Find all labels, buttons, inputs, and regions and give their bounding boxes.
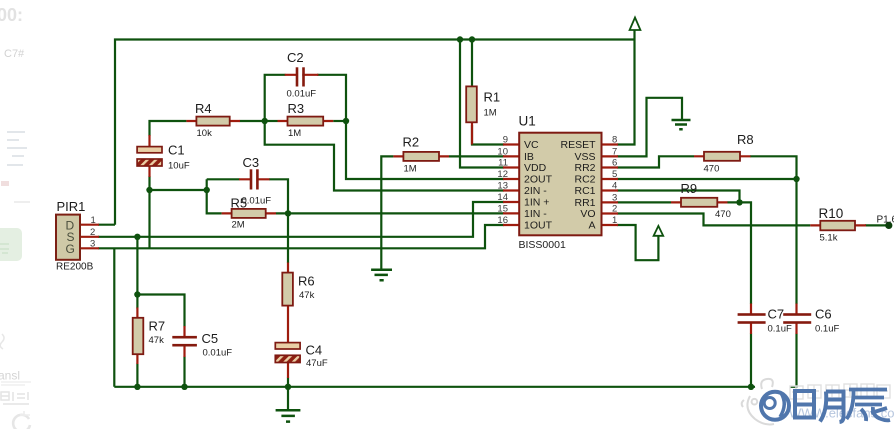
svg-text:470: 470 xyxy=(715,209,731,220)
wire C3 left vertical xyxy=(207,179,222,213)
svg-text:A: A xyxy=(588,220,595,232)
wire pin4 RC1 down to R9 right junction xyxy=(617,191,740,203)
svg-text:R10: R10 xyxy=(819,206,844,221)
R10 stubs xyxy=(810,224,866,226)
wire C1 bottom vertical down to 1OUT line xyxy=(148,176,150,248)
wire C2 loop left xyxy=(265,75,286,121)
wire C3 loop right part + down to R5 right junction xyxy=(269,179,288,213)
wire R9 right junction to C7 vertical xyxy=(727,202,751,304)
svg-text:BISS0001: BISS0001 xyxy=(519,239,566,251)
svg-text:R7: R7 xyxy=(149,318,166,333)
svg-text:R8: R8 xyxy=(737,132,754,147)
power arrow top (VDD) xyxy=(630,18,641,31)
node PIR pin2 / R7 branch xyxy=(134,234,140,240)
svg-text:1: 1 xyxy=(612,215,617,226)
R3 stubs xyxy=(278,120,334,122)
svg-text:R2: R2 xyxy=(403,134,420,149)
resistor R5 xyxy=(232,209,266,218)
svg-text:2IN -: 2IN - xyxy=(524,185,547,197)
svg-text:C7: C7 xyxy=(768,307,785,322)
resistor R10 xyxy=(820,221,855,231)
C4 stubs xyxy=(287,362,289,378)
R8 stubs xyxy=(694,155,751,157)
svg-text:1IN +: 1IN + xyxy=(524,197,549,209)
svg-text:G: G xyxy=(66,242,75,256)
svg-text:0.1uF: 0.1uF xyxy=(815,324,839,335)
svg-text:C2: C2 xyxy=(287,50,304,65)
svg-text:C1: C1 xyxy=(168,143,185,158)
svg-text:470: 470 xyxy=(704,163,720,174)
wire C6 vertical down xyxy=(795,179,797,304)
svg-text:R9: R9 xyxy=(681,181,698,196)
svg-text:14: 14 xyxy=(497,192,508,203)
wire C5 bottom to rail xyxy=(183,357,185,387)
wire junction A to R3 left xyxy=(265,120,278,122)
R9 stubs xyxy=(671,201,728,203)
wire C7 bottom to rail xyxy=(750,334,752,387)
faint left-edge screen artifacts xyxy=(0,5,31,429)
resistor R7 xyxy=(133,318,144,354)
svg-text:VO: VO xyxy=(580,208,595,220)
svg-text:R1: R1 xyxy=(484,90,501,105)
R2 stubs xyxy=(393,155,449,157)
svg-text:4: 4 xyxy=(612,181,617,192)
svg-text:VDD: VDD xyxy=(524,162,547,174)
wire R5/C3 junction down to R6 top xyxy=(287,213,289,263)
wire pin7 VSS elbow to ground G3 xyxy=(617,98,682,157)
wire C4 bottom to rail xyxy=(287,378,289,387)
capacitor C2 plates xyxy=(296,67,305,86)
node B (R3/C2/pin12) xyxy=(343,118,349,124)
resistor R2 xyxy=(403,152,439,161)
node C3 left xyxy=(204,187,210,193)
svg-text:9: 9 xyxy=(503,135,508,146)
svg-text:RR2: RR2 xyxy=(574,162,595,174)
wire R2 left down to ground G2 xyxy=(381,156,393,269)
svg-text:ansl: ansl xyxy=(0,369,20,383)
wire pin6 RR2 elbow to R8 left xyxy=(617,156,694,167)
wire R7 branch from PIR pin2 junction xyxy=(136,237,138,309)
capacitor C5 plates xyxy=(172,336,197,347)
svg-text:2OUT: 2OUT xyxy=(524,174,553,186)
wire PIR pin1 to left border xyxy=(98,224,115,226)
svg-text:0.1uF: 0.1uF xyxy=(768,324,792,335)
svg-text:5.1k: 5.1k xyxy=(820,232,838,243)
wire pin3 RR1 to R9 left xyxy=(617,201,671,203)
PIR pin letters xyxy=(66,218,75,256)
wire PIR pin3 / 1OUT long line xyxy=(98,225,504,248)
svg-text:1: 1 xyxy=(91,215,96,226)
svg-text:7: 7 xyxy=(612,146,617,157)
C5 stubs xyxy=(183,326,185,357)
wire R4 left to C1 top xyxy=(150,121,187,136)
white halo of watermark covering rail xyxy=(750,388,792,426)
wire VDD vertical rail to pin11 xyxy=(460,40,504,168)
svg-text:1M: 1M xyxy=(484,108,497,119)
R1 stubs xyxy=(471,87,473,145)
svg-text:2: 2 xyxy=(90,227,95,238)
capacitor C3 plates xyxy=(250,169,259,189)
IC left pin numbers xyxy=(497,135,508,227)
node R7 bottom on rail xyxy=(134,384,140,390)
node C4/ground on rail xyxy=(285,384,291,390)
node R7 top / C5 branch xyxy=(134,291,140,297)
wire R8 right to junction above C6 xyxy=(750,156,797,179)
light gray swirl shapes around logo xyxy=(742,379,774,425)
svg-text:47k: 47k xyxy=(149,335,165,346)
node R8 right / pin5 / C6 xyxy=(793,176,799,182)
svg-text:5: 5 xyxy=(612,169,617,180)
svg-text:C7#: C7# xyxy=(4,48,25,60)
svg-text:16: 16 xyxy=(497,215,508,226)
wire junction A elbow to pin13 2IN- xyxy=(265,121,504,191)
C1 stubs xyxy=(148,135,150,177)
svg-text:RC2: RC2 xyxy=(574,174,595,186)
R5 stubs xyxy=(222,212,276,214)
node rail / R1 xyxy=(469,36,475,42)
resistor R3 xyxy=(288,117,324,126)
wire R1 top to rail xyxy=(471,40,473,90)
svg-text:C5: C5 xyxy=(202,331,219,346)
power arrow near pin1 A xyxy=(654,226,664,236)
svg-text:RE200B: RE200B xyxy=(56,262,94,273)
op-amp IC U1 body BISS0001 xyxy=(519,133,601,236)
svg-text:47uF: 47uF xyxy=(306,358,328,369)
svg-text:VC: VC xyxy=(524,139,539,151)
svg-text:R5: R5 xyxy=(231,195,248,210)
IC left pin stubs xyxy=(503,145,520,226)
svg-text:11: 11 xyxy=(498,158,508,169)
node VDD rail / pin11 branch xyxy=(457,36,463,42)
wire power-arrow stem / pin8 RESET vertical xyxy=(617,30,635,144)
R4 stubs xyxy=(186,120,240,122)
blue logo circle xyxy=(761,392,789,420)
resistor R4 xyxy=(196,117,229,126)
svg-text:1M: 1M xyxy=(404,164,417,175)
wire PIR pin2 long line to pin14 1IN+ xyxy=(98,202,504,237)
resistor R1 xyxy=(466,86,477,122)
svg-text:8: 8 xyxy=(612,135,617,146)
C7 stubs xyxy=(750,304,752,335)
wire pin1 A elbow to power arrow 2 xyxy=(617,225,658,260)
connector PIR1 body xyxy=(56,215,80,260)
svg-text:10k: 10k xyxy=(197,128,213,139)
svg-text:6: 6 xyxy=(612,158,617,169)
IC pin names left xyxy=(524,139,553,232)
svg-text:10uF: 10uF xyxy=(168,161,190,172)
svg-text:R3: R3 xyxy=(288,101,305,116)
wire pin2 VO elbow to R10 left xyxy=(617,214,810,226)
svg-text:2M: 2M xyxy=(232,220,245,231)
wire C3 loop horizontal left part xyxy=(207,178,240,180)
svg-text:00:: 00: xyxy=(0,5,23,25)
svg-text:C3: C3 xyxy=(243,155,260,170)
resistor R6 xyxy=(282,273,293,306)
svg-text:0.01uF: 0.01uF xyxy=(203,348,233,359)
capacitor C7 plates xyxy=(738,313,766,324)
capacitor C4 (electrolytic) xyxy=(275,343,300,349)
node A (R4/R3/C2/pin13) xyxy=(262,118,268,124)
svg-text:2: 2 xyxy=(612,204,617,215)
ground G2 below R2 xyxy=(371,270,392,281)
svg-text:10: 10 xyxy=(497,146,508,157)
PIR pin numbers xyxy=(90,215,96,250)
wire branch down to bottom rail at left xyxy=(113,248,115,386)
IC pin names right xyxy=(560,139,596,232)
wire pin9 VC to R1 bottom xyxy=(472,125,504,145)
svg-text:C4: C4 xyxy=(306,342,323,357)
svg-text:13: 13 xyxy=(497,181,508,192)
ground G3 right of U1 top xyxy=(672,120,691,129)
C3 stubs xyxy=(239,178,270,180)
node C7 bottom on rail xyxy=(748,384,754,390)
wire C5 branch xyxy=(137,295,184,327)
svg-text:PIR1: PIR1 xyxy=(57,199,86,214)
svg-text:1IN -: 1IN - xyxy=(524,208,547,220)
wire C2 loop right + down to pin12 2OUT xyxy=(317,75,504,179)
svg-text:U1: U1 xyxy=(519,114,536,129)
blue char YUE (moon) xyxy=(820,392,844,423)
faint outline chars row xyxy=(790,384,890,399)
node R9 right / pin4 / C7 xyxy=(736,199,742,205)
wire top rail + left border down to PIR pin1 xyxy=(115,40,635,225)
node C5 bottom on rail xyxy=(181,384,187,390)
resistor R9 xyxy=(681,198,717,207)
wire pin10 IB to R2 right xyxy=(449,155,504,157)
svg-text:RESET: RESET xyxy=(560,139,596,151)
svg-text:1OUT: 1OUT xyxy=(524,220,553,232)
svg-text:3: 3 xyxy=(90,239,95,250)
svg-text:12: 12 xyxy=(497,169,508,180)
svg-text:R6: R6 xyxy=(298,273,315,288)
wire C1 junction to C3 left vertical xyxy=(150,189,207,191)
svg-text:0.01uF: 0.01uF xyxy=(287,89,317,100)
C2 stubs xyxy=(285,74,319,76)
blue char CHEN xyxy=(847,390,891,422)
wire R5 right to pin15 1IN- xyxy=(276,212,504,214)
IC right pin numbers xyxy=(612,135,617,227)
svg-text:P1.6: P1.6 xyxy=(877,214,894,225)
IC right pin stubs xyxy=(601,145,618,226)
C6 stubs xyxy=(795,304,797,335)
terminal P1 dot xyxy=(885,222,892,229)
svg-text:C6: C6 xyxy=(815,307,832,322)
resistor R8 xyxy=(704,152,740,161)
wire pin5 RC2 to C6 junction xyxy=(617,178,797,180)
svg-text:RC1: RC1 xyxy=(574,185,595,197)
blue char RI (sun) xyxy=(795,391,814,418)
capacitor C1 (electrolytic) xyxy=(137,147,162,153)
wire R10 right to terminal P1 xyxy=(865,224,889,226)
wire R3 right to junction B xyxy=(333,120,346,122)
wire bottom rail xyxy=(114,386,797,388)
wire C6 bottom to rail xyxy=(795,334,797,387)
R6 stubs xyxy=(287,263,289,344)
wire R7 bottom to rail xyxy=(136,364,138,387)
capacitor C6 plates xyxy=(783,313,811,324)
node C1 bottom xyxy=(146,187,152,193)
svg-text:15: 15 xyxy=(497,203,508,214)
svg-text:3: 3 xyxy=(612,192,617,203)
svg-text:47k: 47k xyxy=(299,290,315,301)
PIR pin stubs xyxy=(80,225,99,249)
svg-text:R4: R4 xyxy=(195,101,212,116)
wire R4 right to junction A xyxy=(240,120,265,122)
node R5/C3 right xyxy=(285,210,291,216)
ground G1 below C4 xyxy=(276,410,301,421)
svg-text:1M: 1M xyxy=(288,128,301,139)
R7 stubs xyxy=(136,308,138,365)
wire ground G1 stem xyxy=(287,387,289,410)
